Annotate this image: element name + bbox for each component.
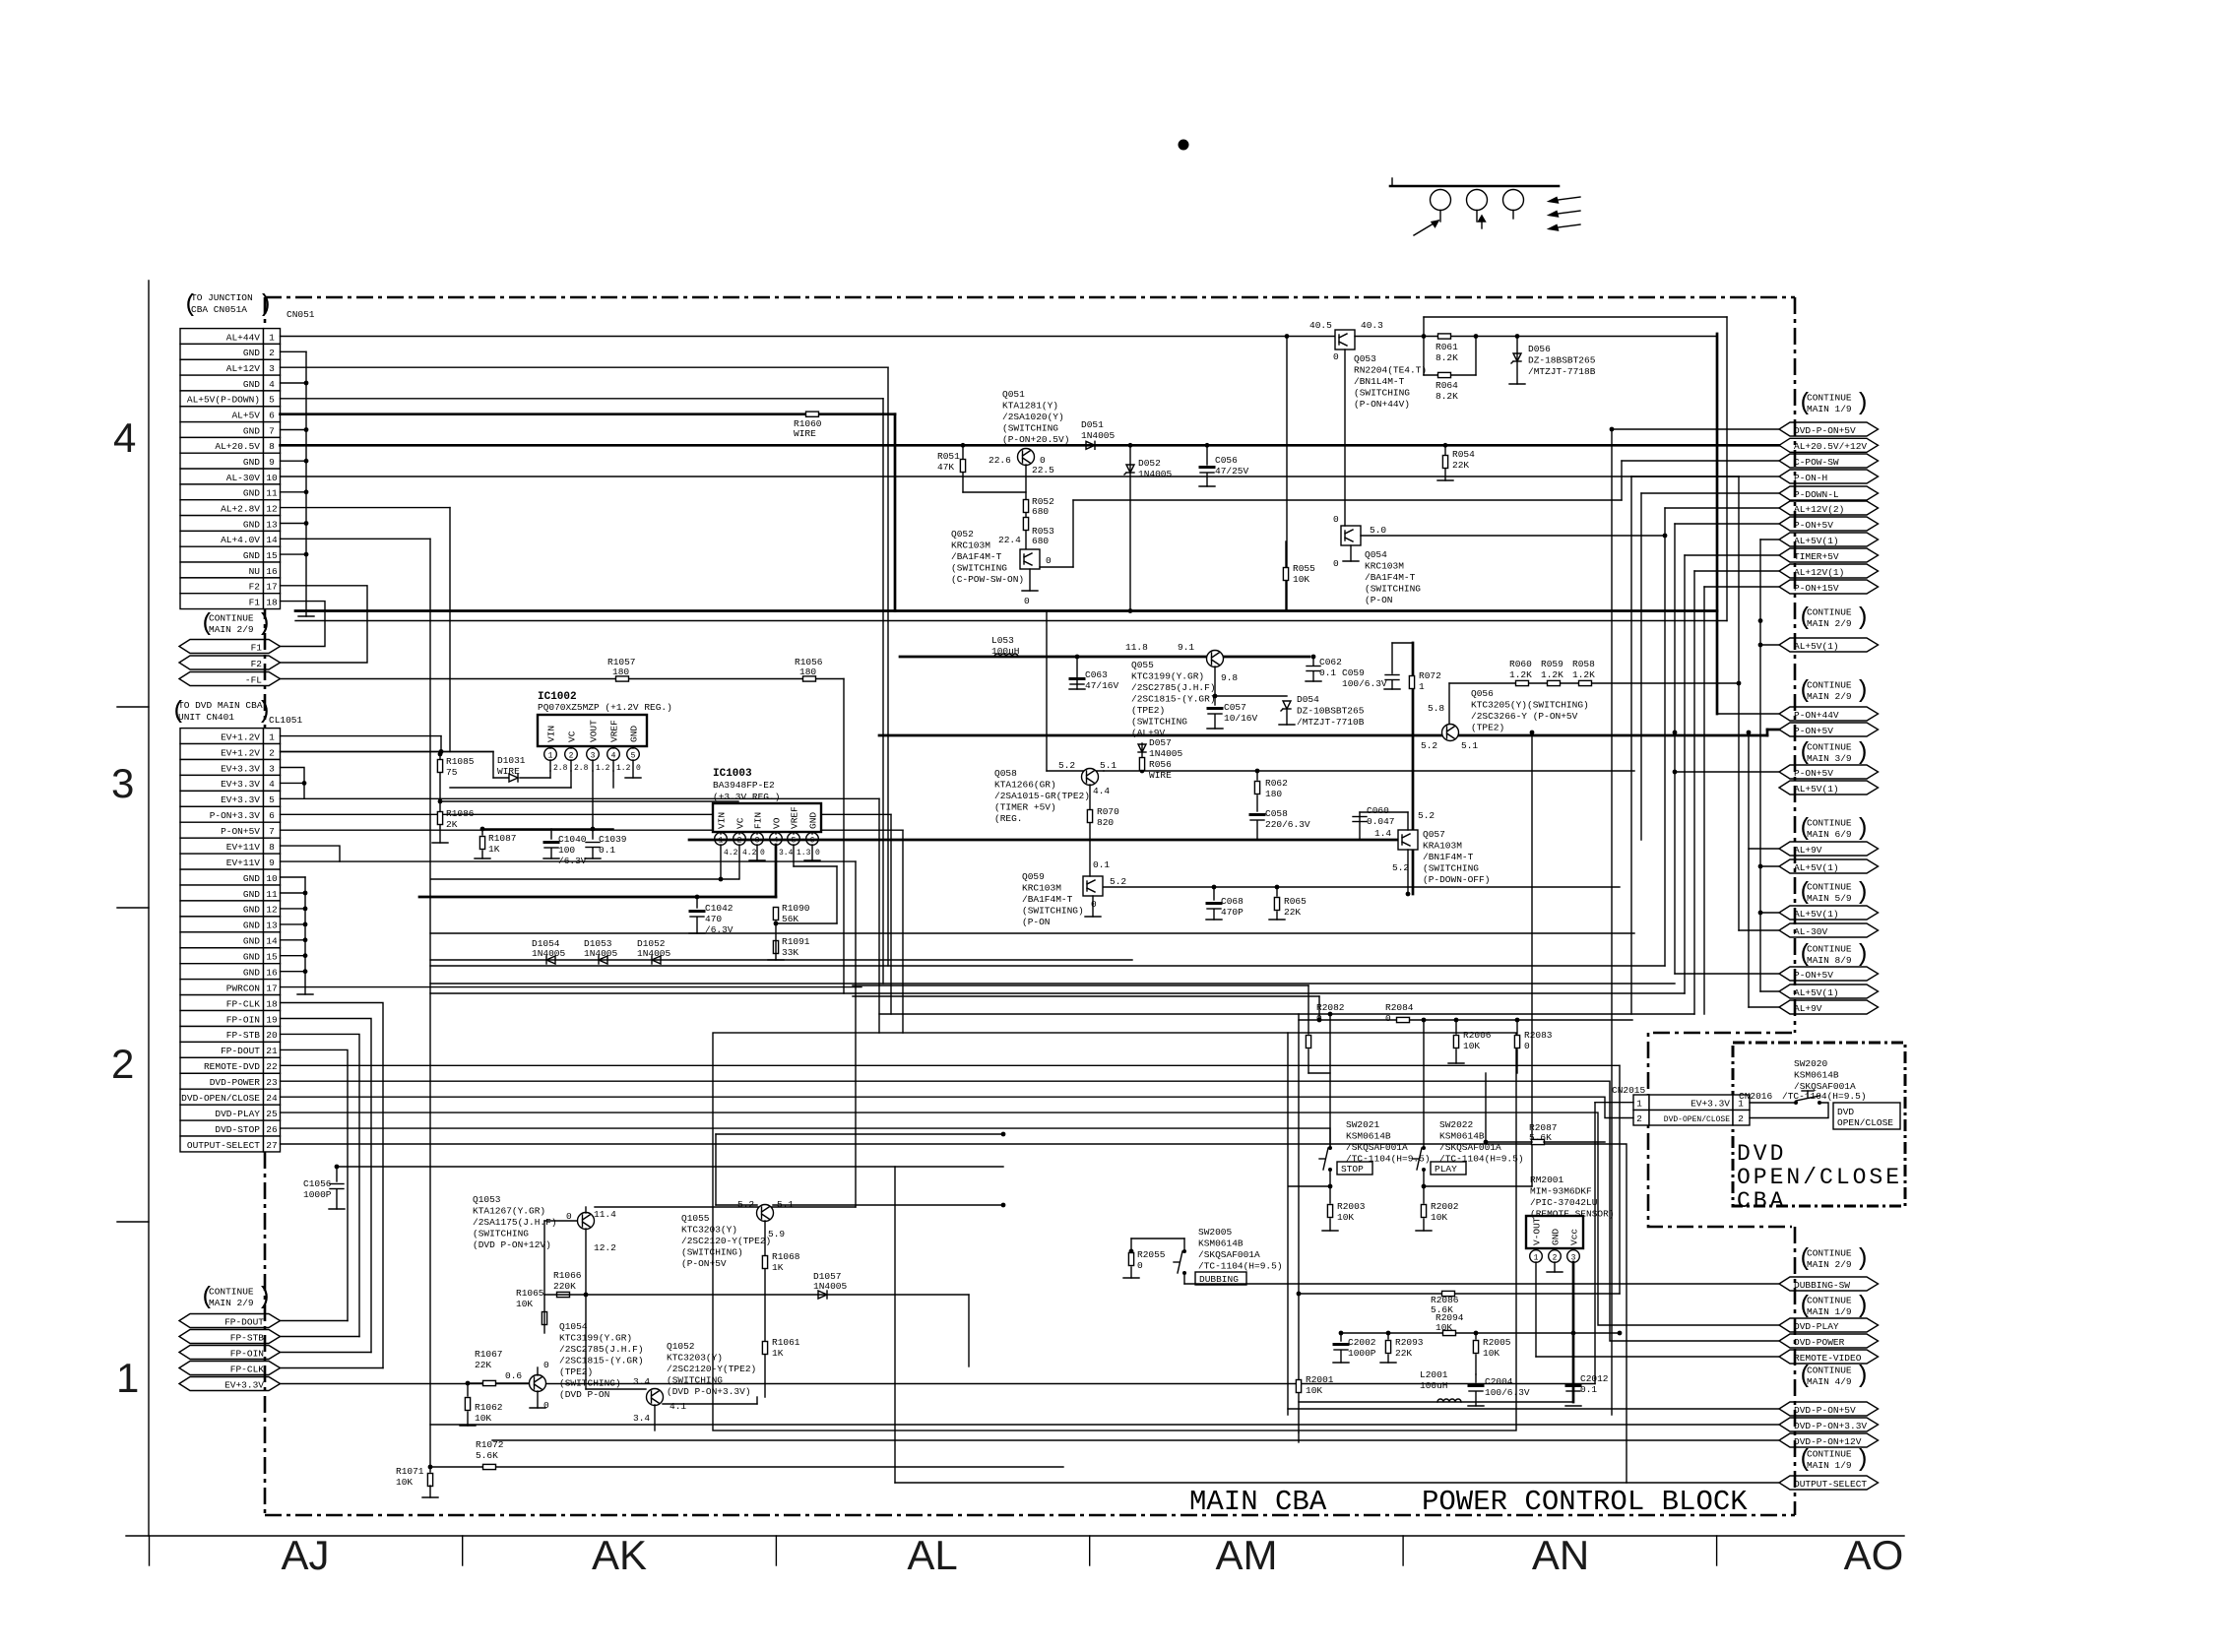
wire bbox=[689, 839, 1402, 842]
svg-text:(REMOTE SENSOR): (REMOTE SENSOR) bbox=[1530, 1209, 1615, 1220]
wire bbox=[811, 832, 813, 834]
pin 2 bbox=[565, 748, 578, 761]
svg-text:EV+11V: EV+11V bbox=[226, 842, 261, 853]
svg-text:10K: 10K bbox=[475, 1413, 491, 1424]
svg-text:): ) bbox=[1855, 1244, 1870, 1273]
wire bbox=[429, 1486, 431, 1497]
wire bbox=[550, 829, 552, 839]
svg-text:SW2021: SW2021 bbox=[1346, 1119, 1380, 1130]
svg-text:MAIN 2/9: MAIN 2/9 bbox=[209, 1298, 254, 1308]
node -FL flag bbox=[179, 672, 281, 686]
arrow into terminal 1 bbox=[1414, 221, 1438, 235]
wire bbox=[1076, 657, 1078, 689]
wire bbox=[1387, 1355, 1389, 1363]
svg-text:0.047: 0.047 bbox=[1367, 816, 1395, 827]
svg-text:CONTINUE: CONTINUE bbox=[1807, 1366, 1852, 1376]
svg-text:MAIN 6/9: MAIN 6/9 bbox=[1807, 829, 1852, 840]
svg-text:AL+2.8V: AL+2.8V bbox=[221, 503, 260, 514]
node P-ON+5V flag bbox=[1779, 723, 1879, 736]
svg-text:5: 5 bbox=[631, 752, 636, 761]
svg-text:820: 820 bbox=[1097, 817, 1114, 828]
svg-text:1.2K: 1.2K bbox=[1509, 669, 1532, 680]
wire bbox=[336, 1189, 338, 1209]
svg-text:47K: 47K bbox=[937, 462, 954, 473]
wire bbox=[570, 771, 572, 788]
wire bbox=[1767, 729, 1779, 731]
wire bbox=[281, 955, 306, 957]
wire bbox=[1749, 848, 1779, 850]
svg-text:GND: GND bbox=[1551, 1229, 1562, 1245]
svg-text:100uH: 100uH bbox=[991, 646, 1020, 657]
svg-text:CONTINUE: CONTINUE bbox=[1807, 680, 1852, 691]
diode D1054 bbox=[546, 956, 555, 964]
svg-text:R070: R070 bbox=[1097, 806, 1119, 817]
svg-text:4.2: 4.2 bbox=[724, 849, 738, 858]
wire bbox=[1214, 667, 1216, 705]
wire bbox=[715, 1134, 717, 1205]
svg-text:R2003: R2003 bbox=[1337, 1201, 1366, 1212]
svg-text:KTA1266(GR): KTA1266(GR) bbox=[994, 780, 1056, 791]
svg-text:0: 0 bbox=[1137, 1260, 1143, 1271]
CL1051 ground bus bbox=[304, 877, 306, 994]
svg-text:CN2016: CN2016 bbox=[1739, 1091, 1773, 1102]
wire bbox=[1360, 811, 1408, 813]
svg-text:WIRE: WIRE bbox=[497, 766, 520, 777]
svg-text:): ) bbox=[1855, 940, 1870, 969]
svg-text:27: 27 bbox=[266, 1140, 277, 1151]
svg-text:GND: GND bbox=[808, 812, 819, 829]
svg-text:AN: AN bbox=[1532, 1532, 1589, 1578]
wire bbox=[612, 760, 614, 771]
wire bbox=[1341, 1332, 1620, 1334]
svg-text:0: 0 bbox=[543, 1400, 549, 1411]
svg-text:1.2: 1.2 bbox=[596, 764, 610, 773]
svg-text:1N4005: 1N4005 bbox=[1081, 430, 1116, 441]
node AL+12V(2) flag bbox=[1779, 501, 1879, 515]
svg-text:P-ON+5V: P-ON+5V bbox=[1794, 520, 1833, 531]
wire bbox=[1444, 445, 1446, 480]
svg-text:POWER CONTROL BLOCK: POWER CONTROL BLOCK bbox=[1422, 1486, 1748, 1518]
resistor R059 bbox=[1548, 680, 1561, 685]
wire bbox=[1308, 1072, 1330, 1074]
wire bbox=[1256, 821, 1258, 840]
node OUTPUT-SELECT flag bbox=[1779, 1476, 1879, 1490]
wire bbox=[654, 1405, 656, 1430]
wire bbox=[281, 678, 845, 680]
wire bbox=[663, 1403, 757, 1405]
node F2 flag bbox=[179, 656, 281, 669]
wire bbox=[537, 1367, 539, 1375]
wire bbox=[738, 845, 740, 879]
svg-text:11: 11 bbox=[266, 488, 278, 499]
svg-text:2.8: 2.8 bbox=[574, 764, 589, 773]
resistor R2002 bbox=[1421, 1205, 1426, 1218]
resistor R2084 bbox=[1397, 1017, 1410, 1022]
ground bbox=[298, 615, 314, 617]
svg-text:5.8: 5.8 bbox=[1428, 703, 1444, 714]
node AL+5V(1) flag bbox=[1779, 638, 1879, 652]
svg-text:21: 21 bbox=[266, 1046, 278, 1056]
svg-text:0: 0 bbox=[1524, 1041, 1530, 1051]
wire bbox=[894, 414, 897, 611]
svg-text:/SKQSAF001A: /SKQSAF001A bbox=[1439, 1142, 1501, 1153]
main block dash-dot border right upper bbox=[1794, 297, 1797, 1033]
svg-text:PWRCON: PWRCON bbox=[226, 983, 260, 993]
node P-ON+5V flag bbox=[1779, 517, 1879, 531]
wire bbox=[281, 1367, 384, 1369]
wire bbox=[1289, 1185, 1330, 1187]
pin 5 bbox=[788, 833, 800, 846]
resistor R056 bbox=[1139, 758, 1144, 771]
svg-text:EV+3.3V: EV+3.3V bbox=[224, 1379, 264, 1390]
svg-text:CONTINUE: CONTINUE bbox=[1807, 944, 1852, 955]
svg-text:): ) bbox=[258, 290, 273, 319]
svg-text:CONTINUE: CONTINUE bbox=[209, 613, 254, 624]
svg-text:AL+5V: AL+5V bbox=[231, 410, 260, 420]
wire bbox=[281, 1383, 1596, 1385]
pin 1 bbox=[1530, 1250, 1543, 1263]
svg-text:12.2: 12.2 bbox=[594, 1242, 616, 1253]
svg-text:/MTZJT-7710B: /MTZJT-7710B bbox=[1297, 717, 1365, 728]
node DVD-P-ON+5V flag bbox=[1779, 1402, 1879, 1416]
wire bbox=[1129, 445, 1131, 610]
node AL+5V(1) flag bbox=[1779, 985, 1879, 998]
svg-text:R1087: R1087 bbox=[488, 833, 517, 844]
svg-text:100uH: 100uH bbox=[1420, 1380, 1448, 1391]
wire bbox=[281, 939, 306, 941]
wire bbox=[1329, 1219, 1331, 1231]
wire bbox=[794, 865, 837, 867]
svg-text:MAIN 2/9: MAIN 2/9 bbox=[1807, 618, 1852, 629]
wire bbox=[1640, 493, 1642, 840]
transistor Q053 bbox=[1335, 330, 1355, 349]
svg-text:R2082: R2082 bbox=[1316, 1002, 1345, 1013]
wire bbox=[1631, 476, 1779, 477]
svg-text:18: 18 bbox=[266, 998, 278, 1009]
svg-text:C058: C058 bbox=[1265, 808, 1288, 819]
wire bbox=[632, 746, 634, 748]
svg-text:CN051: CN051 bbox=[287, 309, 315, 320]
svg-text:D051: D051 bbox=[1081, 419, 1104, 430]
svg-text:D057: D057 bbox=[1149, 737, 1172, 748]
svg-text:AL+5V(1): AL+5V(1) bbox=[1794, 536, 1839, 546]
DVD OPEN/CLOSE CBA inner dash-dot box bbox=[1733, 1043, 1905, 1206]
resistor R053 bbox=[1023, 518, 1028, 531]
wire bbox=[281, 768, 305, 799]
wire bbox=[439, 752, 441, 844]
wire bbox=[1675, 523, 1779, 525]
svg-text:L2001: L2001 bbox=[1420, 1369, 1448, 1380]
svg-text:680: 680 bbox=[1032, 506, 1049, 517]
svg-text:): ) bbox=[257, 609, 272, 638]
IC U IC1003 bbox=[713, 803, 821, 832]
svg-text:GND: GND bbox=[243, 379, 260, 390]
node FP-STB flag bbox=[179, 1330, 281, 1344]
resistor R2082 bbox=[1306, 1036, 1310, 1048]
svg-text:5.1: 5.1 bbox=[1100, 760, 1116, 771]
svg-text:(P-DOWN-OFF): (P-DOWN-OFF) bbox=[1423, 874, 1490, 885]
svg-text:2: 2 bbox=[269, 747, 275, 758]
svg-text:EV+3.3V: EV+3.3V bbox=[221, 794, 260, 805]
wire bbox=[1299, 1401, 1573, 1403]
resistor R065 bbox=[1274, 898, 1279, 911]
svg-text:): ) bbox=[1855, 878, 1870, 907]
svg-text:VC: VC bbox=[735, 817, 746, 829]
svg-text:C056: C056 bbox=[1215, 455, 1238, 466]
svg-text:AK: AK bbox=[592, 1532, 647, 1578]
ground bbox=[1022, 590, 1038, 592]
wire bbox=[1213, 887, 1215, 900]
node AL+5V(1) flag bbox=[1779, 533, 1879, 546]
wire bbox=[430, 959, 1132, 961]
svg-text:DVD-OPEN/CLOSE: DVD-OPEN/CLOSE bbox=[181, 1093, 260, 1104]
svg-text:13: 13 bbox=[266, 921, 278, 931]
svg-text:1.2K: 1.2K bbox=[1541, 669, 1563, 680]
wire bbox=[720, 845, 722, 879]
transistor Q057 bbox=[1398, 830, 1418, 850]
svg-text:KSM0614B: KSM0614B bbox=[1198, 1239, 1244, 1249]
svg-text:P-ON+44V: P-ON+44V bbox=[1794, 710, 1839, 721]
svg-text:/2SA1015-GR(TPE2): /2SA1015-GR(TPE2) bbox=[994, 791, 1090, 801]
svg-text:CBA: CBA bbox=[1737, 1188, 1786, 1214]
wire bbox=[1286, 709, 1288, 725]
svg-text:VREF: VREF bbox=[609, 720, 620, 742]
wire bbox=[281, 1003, 384, 1368]
capacitor C2004 bbox=[1469, 1386, 1483, 1392]
svg-text:10K: 10K bbox=[1293, 574, 1309, 585]
svg-text:FP-OIN: FP-OIN bbox=[226, 1014, 260, 1025]
wire bbox=[1072, 500, 1074, 567]
svg-text:VIN: VIN bbox=[717, 812, 728, 829]
wire bbox=[1766, 730, 1769, 735]
svg-text:REMOTE-DVD: REMOTE-DVD bbox=[204, 1061, 260, 1072]
svg-text:GND: GND bbox=[243, 952, 260, 963]
transistor Q1052 bbox=[647, 1389, 664, 1406]
svg-text:C2012: C2012 bbox=[1580, 1373, 1609, 1384]
svg-text:56K: 56K bbox=[782, 914, 798, 924]
svg-text:GND: GND bbox=[243, 967, 260, 978]
ground bbox=[625, 777, 641, 779]
svg-text:C060: C060 bbox=[1367, 805, 1389, 816]
svg-text:C2004: C2004 bbox=[1485, 1376, 1513, 1387]
svg-text:/BN1F4M-T: /BN1F4M-T bbox=[1423, 852, 1474, 862]
wire bbox=[1475, 1374, 1477, 1382]
svg-text:15: 15 bbox=[266, 550, 278, 561]
svg-text:5.9: 5.9 bbox=[768, 1229, 785, 1239]
svg-text:8: 8 bbox=[269, 441, 275, 452]
svg-text:TIMER+5V: TIMER+5V bbox=[1794, 551, 1839, 562]
wire bbox=[281, 1049, 349, 1320]
svg-text:2: 2 bbox=[1738, 1113, 1744, 1124]
svg-text:(P-ON+44V): (P-ON+44V) bbox=[1354, 399, 1410, 410]
svg-text:AJ: AJ bbox=[281, 1532, 329, 1578]
svg-text:NU: NU bbox=[249, 566, 261, 577]
svg-text:4.2: 4.2 bbox=[742, 849, 757, 858]
svg-text:2: 2 bbox=[1553, 1254, 1558, 1263]
wire bbox=[281, 460, 307, 462]
svg-text:/2SC1815-(Y.GR): /2SC1815-(Y.GR) bbox=[559, 1356, 644, 1366]
svg-text:R2001: R2001 bbox=[1306, 1374, 1334, 1385]
wire bbox=[544, 1294, 969, 1296]
node AL+9V flag bbox=[1779, 842, 1879, 856]
resistor R1087 bbox=[479, 837, 484, 850]
wire bbox=[1308, 985, 1309, 1034]
svg-text:): ) bbox=[1855, 1292, 1870, 1320]
svg-text:F1: F1 bbox=[251, 642, 263, 653]
wire bbox=[612, 746, 614, 748]
svg-text:KRC103M: KRC103M bbox=[1365, 561, 1404, 572]
svg-text:DVD: DVD bbox=[1837, 1107, 1854, 1117]
zener diode D056 bbox=[1511, 353, 1521, 363]
wire bbox=[468, 1382, 529, 1384]
wire bbox=[879, 734, 1767, 737]
svg-text:KTA1281(Y): KTA1281(Y) bbox=[1002, 401, 1058, 412]
row tick 3/2 bbox=[117, 907, 149, 909]
ground bbox=[297, 993, 313, 995]
svg-text:1000P: 1000P bbox=[1348, 1348, 1376, 1359]
wire bbox=[586, 1388, 646, 1390]
wire bbox=[281, 1081, 1780, 1341]
wire bbox=[281, 813, 892, 815]
svg-text:(SWITCHING: (SWITCHING bbox=[473, 1229, 529, 1239]
resistor R1060 bbox=[806, 412, 819, 416]
wire bbox=[1423, 1020, 1425, 1148]
svg-text:R2006: R2006 bbox=[1463, 1030, 1492, 1041]
svg-text:AO: AO bbox=[1844, 1532, 1904, 1578]
svg-text:AL+12V(2): AL+12V(2) bbox=[1794, 504, 1844, 515]
main block dash-dot border bottom bbox=[265, 1514, 1795, 1517]
inductor L053 bbox=[994, 654, 1018, 657]
wire bbox=[1423, 1170, 1425, 1203]
svg-text:EV+1.2V: EV+1.2V bbox=[221, 731, 260, 742]
wire bbox=[1703, 587, 1705, 1014]
svg-text:OUTPUT-SELECT: OUTPUT-SELECT bbox=[1794, 1479, 1867, 1490]
wire bbox=[1622, 460, 1779, 462]
resistor R052 bbox=[1023, 500, 1028, 513]
ground bbox=[475, 858, 490, 859]
svg-text:R2055: R2055 bbox=[1137, 1249, 1166, 1260]
resistor R1066 bbox=[557, 1292, 570, 1297]
svg-text:7: 7 bbox=[269, 425, 275, 436]
module RM2001 bbox=[1526, 1216, 1583, 1248]
svg-text:GND: GND bbox=[243, 550, 260, 561]
svg-text:R059: R059 bbox=[1541, 659, 1563, 669]
wire bbox=[793, 832, 795, 834]
wire bbox=[900, 656, 1309, 659]
transistor Q052 bbox=[1020, 549, 1040, 569]
svg-text:GND: GND bbox=[243, 921, 260, 931]
wire bbox=[1694, 570, 1779, 572]
wire bbox=[1130, 1267, 1132, 1278]
svg-text:AL+5V(1): AL+5V(1) bbox=[1794, 987, 1839, 998]
wire bbox=[1674, 524, 1676, 974]
svg-text:MAIN 4/9: MAIN 4/9 bbox=[1807, 1376, 1852, 1387]
ground bbox=[1437, 479, 1453, 481]
terminal stems bbox=[1440, 211, 1513, 222]
wire bbox=[1299, 1293, 1620, 1295]
resistor R2083 bbox=[1514, 1036, 1519, 1048]
wire bbox=[467, 1383, 469, 1396]
svg-text:WIRE: WIRE bbox=[1149, 770, 1172, 781]
svg-text:(SWITCHING: (SWITCHING bbox=[1131, 717, 1187, 728]
wire bbox=[1726, 317, 1728, 621]
svg-text:FIN: FIN bbox=[753, 812, 764, 829]
ground bbox=[804, 859, 820, 861]
node AL+5V(1) flag bbox=[1779, 906, 1879, 920]
svg-text:6: 6 bbox=[269, 410, 275, 420]
ground bbox=[1123, 1277, 1139, 1279]
svg-text:AL-30V: AL-30V bbox=[1794, 926, 1828, 937]
ground bbox=[530, 1407, 545, 1409]
svg-text:1N4005: 1N4005 bbox=[1138, 469, 1173, 479]
svg-text:D052: D052 bbox=[1138, 458, 1161, 469]
svg-text:(P-ON: (P-ON bbox=[1365, 595, 1393, 605]
main block dash-dot border top bbox=[265, 296, 1795, 299]
svg-text:10K: 10K bbox=[1463, 1041, 1480, 1051]
ground bbox=[1333, 1362, 1349, 1364]
wire bbox=[281, 586, 368, 663]
ground bbox=[1207, 728, 1223, 730]
wire bbox=[1704, 586, 1779, 588]
svg-text:GND: GND bbox=[243, 905, 260, 916]
svg-text:Q058: Q058 bbox=[994, 768, 1017, 779]
svg-text:10K: 10K bbox=[1431, 1212, 1447, 1223]
ground bbox=[543, 858, 559, 859]
wire bbox=[1073, 499, 1622, 501]
svg-text:22K: 22K bbox=[1452, 460, 1469, 471]
svg-text:R061: R061 bbox=[1435, 342, 1458, 352]
svg-text:10K: 10K bbox=[1306, 1385, 1322, 1396]
svg-text:P-ON+5V: P-ON+5V bbox=[1794, 970, 1833, 981]
svg-text:1.2K: 1.2K bbox=[1572, 669, 1595, 680]
wire bbox=[549, 746, 551, 748]
svg-text:1: 1 bbox=[116, 1355, 139, 1401]
wire bbox=[1665, 507, 1779, 509]
svg-text:CONTINUE: CONTINUE bbox=[1807, 607, 1852, 618]
svg-text:KRC103M: KRC103M bbox=[951, 540, 990, 551]
svg-text:DVD-P-ON+5V: DVD-P-ON+5V bbox=[1794, 1405, 1856, 1416]
svg-text:5: 5 bbox=[269, 794, 275, 805]
wire bbox=[716, 1204, 757, 1206]
wire bbox=[281, 476, 1740, 477]
resistor R1072 bbox=[483, 1464, 496, 1469]
ground bbox=[329, 1208, 345, 1210]
wire bbox=[295, 620, 1727, 622]
svg-text:/SKQSAF001A: /SKQSAF001A bbox=[1346, 1142, 1408, 1153]
svg-text:R2002: R2002 bbox=[1431, 1201, 1459, 1212]
svg-text:22: 22 bbox=[266, 1061, 278, 1072]
wire bbox=[481, 829, 483, 835]
svg-text:0.6: 0.6 bbox=[505, 1370, 522, 1381]
terminal circle 3 bbox=[1503, 190, 1524, 211]
svg-text:0: 0 bbox=[543, 1360, 549, 1370]
wire bbox=[1184, 1283, 1779, 1285]
svg-text:AL+12V(1): AL+12V(1) bbox=[1794, 567, 1844, 578]
svg-text:R062: R062 bbox=[1265, 778, 1288, 789]
svg-text:F2: F2 bbox=[251, 659, 263, 669]
wire bbox=[612, 771, 614, 788]
resistor R1068 bbox=[762, 1256, 767, 1269]
svg-text:0: 0 bbox=[636, 764, 641, 773]
svg-text:1: 1 bbox=[719, 837, 724, 846]
wire bbox=[1716, 334, 1719, 714]
wire bbox=[281, 553, 307, 555]
svg-text:(TPE2): (TPE2) bbox=[559, 1366, 593, 1377]
svg-text:CONTINUE: CONTINUE bbox=[1807, 1296, 1852, 1306]
wire bbox=[1619, 1065, 1621, 1294]
wire bbox=[716, 1133, 1003, 1135]
diode D1052 bbox=[652, 956, 661, 964]
